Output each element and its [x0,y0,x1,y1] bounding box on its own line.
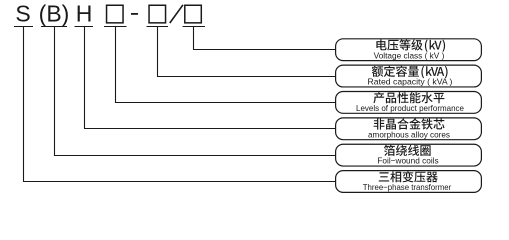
wire from H to box 4 (amorphous alloy cores) [85,27,336,129]
underline under S [14,26,33,28]
label box 3 Chinese text: 产品性能水平 [373,92,444,103]
svg-text:Three−phase transformer: Three−phase transformer [363,182,452,192]
label box 2 outline [336,65,482,87]
underline under (B) [41,26,67,28]
label box 4 outline [336,118,482,140]
svg-text:H: H [76,1,93,27]
label box 3 English text: Levels of product performance [356,103,464,113]
label box 5 outline [336,144,482,166]
placeholder square 2 (rated capacity) [149,5,166,23]
underline under H [75,26,94,28]
wire from S to box 6 (three-phase transformer) [24,27,336,182]
placeholder square 3 (voltage class) [185,5,202,23]
label box 1 outline [336,39,482,61]
label box 4 Chinese text: 非晶合金铁芯 [374,118,445,129]
label box 2 English text: Rated capacity ( kVA ) [368,77,453,87]
label box 3 outline [336,92,482,114]
wire from square 1 to box 3 (performance level) [116,27,336,103]
svg-text:(B): (B) [39,1,70,27]
slash separator [170,5,183,23]
letters (B) (foil-winding code) [39,1,70,27]
svg-text:Voltage class ( kV ): Voltage class ( kV ) [374,50,445,60]
underline under square 3 [183,26,206,28]
label box 6 Chinese text: 三相变压器 [379,171,438,182]
label box 6 English text: Three−phase transformer [363,182,452,192]
label box 6 outline [336,171,482,193]
label box 2 Chinese text: 额定容量(kVA) [372,66,448,79]
underline under square 2 [147,26,169,28]
wire from square 2 to box 2 (rated capacity) [158,27,336,77]
letter S (three-phase code) [15,1,30,27]
svg-text:Foil−wound coils: Foil−wound coils [377,156,438,166]
svg-text:S: S [15,1,30,27]
letter H (amorphous core code) [76,1,93,27]
label box 4 English text: amorphous alloy cores [368,129,450,139]
svg-text:Rated capacity ( kVA ): Rated capacity ( kVA ) [368,77,453,87]
svg-text:amorphous alloy cores: amorphous alloy cores [368,129,450,139]
label box 1 Chinese text: 电压等级(kV) [376,39,445,52]
svg-text:Levels of product performance: Levels of product performance [356,103,464,113]
label box 5 English text: Foil−wound coils [377,156,438,166]
hyphen separator [131,13,138,15]
placeholder square 1 (performance level) [107,5,124,23]
label box 5 Chinese text: 箔绕线圈 [384,145,431,156]
underline under square 1 [104,26,127,28]
wire from square 3 to box 1 (voltage class) [194,27,336,50]
wire from (B) to box 5 (foil-wound coils) [55,27,336,156]
label box 1 English text: Voltage class ( kV ) [374,50,445,60]
